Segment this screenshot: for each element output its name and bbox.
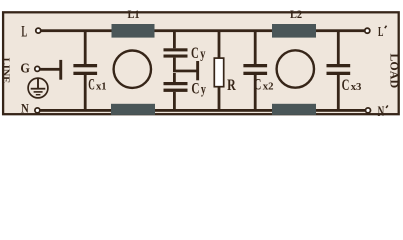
svg-text:x3: x3 [351,81,362,93]
bottom wire [41,109,367,112]
terminal L [36,28,41,33]
svg-text:y: y [201,82,206,97]
svg-text:G: G [20,62,30,77]
svg-text:R: R [227,77,236,94]
top wire [41,29,366,32]
wire R branch lower [218,88,221,111]
ground symbol [28,78,48,98]
svg-text:N: N [378,104,385,120]
svg-text:L1: L1 [128,9,140,21]
G wire [38,68,60,71]
inductor L1 upper winding [112,24,155,38]
capacitor Cy upper [164,30,188,70]
terminal N [35,108,40,113]
terminal N-prime [366,108,371,113]
resistor R [214,58,223,87]
svg-text:L: L [21,23,27,40]
inductor L1 lower winding [111,104,155,115]
G coupling plate [59,60,62,80]
capacitor Cx3 [327,30,351,111]
wire R branch upper [218,30,221,58]
svg-text:N: N [21,102,29,116]
inductor L1 core [114,50,151,87]
svg-text:x1: x1 [96,81,107,93]
svg-text:C: C [342,77,350,94]
svg-text:LINE: LINE [0,58,10,83]
svg-text:x2: x2 [263,80,274,92]
svg-text:L2: L2 [290,9,302,21]
svg-text:C: C [191,81,199,98]
svg-text:C: C [88,77,95,94]
capacitor Cy lower [164,73,188,110]
inductor L2 upper winding [272,24,316,38]
tap plate [196,61,199,80]
inductor L2 core [277,50,314,87]
terminal L-prime [365,28,370,33]
capacitor Cx1 [73,30,97,111]
terminal G [35,66,40,71]
svg-text:L: L [378,24,383,39]
svg-text:y: y [200,46,205,61]
panel background [0,0,403,127]
inductor L2 lower winding [272,104,316,115]
svg-text:C: C [191,45,199,62]
svg-text:LOAD: LOAD [387,53,399,88]
Cy mid tap [173,70,198,73]
capacitor Cx2 [243,30,267,111]
svg-text:C: C [254,76,262,93]
